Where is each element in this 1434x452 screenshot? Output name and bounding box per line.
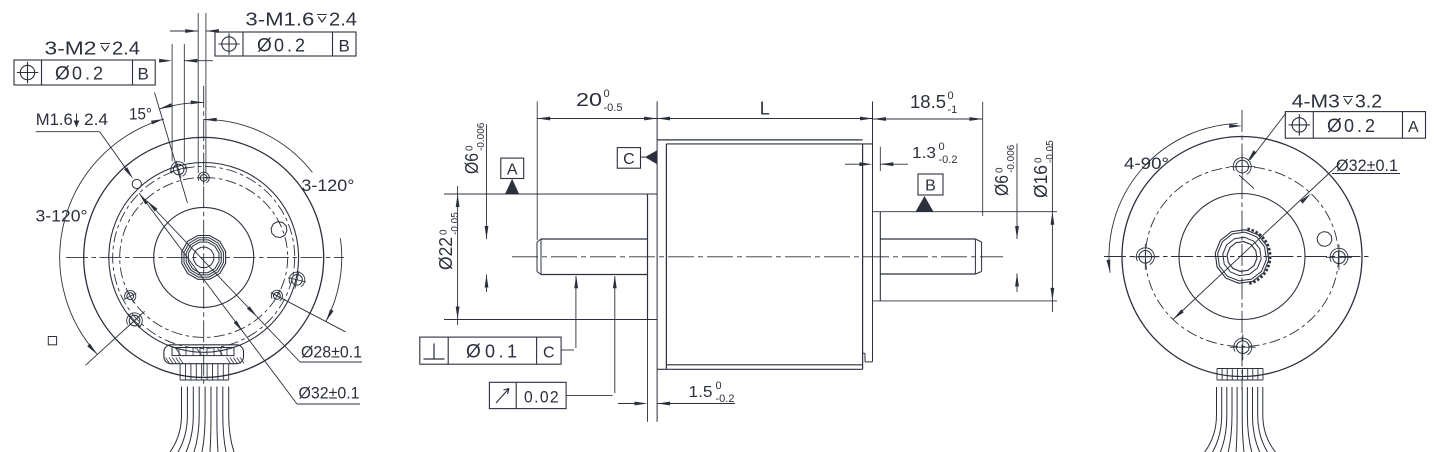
M3 screw hole 4 [1326,244,1352,270]
svg-text:-0.2: -0.2 [716,393,735,405]
left view pilot boss circle [154,207,254,307]
right shaft (D6) [880,239,981,274]
svg-text:-1: -1 [948,104,958,116]
svg-text:3.2: 3.2 [1355,91,1382,111]
svg-text:3-120°: 3-120° [301,176,354,195]
datum B [916,174,944,212]
connector housing left view [164,345,244,364]
front boss face line [647,194,649,320]
3-M1.6 hole diameter dimension line [170,29,219,33]
D32 diameter dimension line right view [1173,163,1340,320]
text 15deg [129,105,152,124]
right view vertical centerline [1241,110,1243,390]
M2 screw hole 2 [127,313,143,328]
rear cap bottom notch [863,353,873,362]
D28 diameter leader line [147,201,362,362]
svg-text:L: L [760,99,770,119]
body lip bottom line [666,364,862,366]
body front edge [665,144,667,369]
svg-text:0: 0 [439,229,450,235]
position tolerance frame A (4-M3) [1285,112,1425,139]
M2 screw hole 3 [288,271,306,289]
svg-text:Ø: Ø [1327,116,1342,137]
svg-text:1.3: 1.3 [912,145,936,162]
svg-text:Ø: Ø [257,36,272,57]
D6 right dimension line [1015,144,1019,293]
svg-text:0: 0 [1034,157,1045,163]
dimension 18.5 line [873,117,982,121]
svg-text:0: 0 [948,90,954,102]
left view shaft and bearing rings [182,236,226,280]
svg-text:4-M3: 4-M3 [1292,91,1340,111]
D32 diameter leader line [139,193,360,404]
M1.6 screw hole 3 [271,290,283,302]
svg-text:0: 0 [604,88,610,100]
D16 top edge/extension [873,211,1058,213]
perpendicularity tolerance frame [420,275,578,364]
svg-text:A: A [1408,119,1419,136]
left view horizontal centerline [66,256,344,258]
svg-text:3-120°: 3-120° [36,207,88,226]
M3 screw hole 3 [1132,244,1158,270]
body back edge [862,144,864,369]
dimension 1.5 line [618,402,735,406]
svg-text:Ø: Ø [466,342,481,363]
svg-text:0: 0 [939,141,945,153]
wire bundle right view [1205,387,1276,452]
runout tolerance frame [489,275,616,408]
svg-text:C: C [623,151,635,168]
left view flange circle [109,163,299,353]
body top line [657,139,863,141]
M3 screw hole 1 [1229,154,1255,180]
M2 hole projection lines [172,44,184,162]
svg-text:18.5: 18.5 [910,92,946,112]
svg-text:1.5: 1.5 [689,384,713,401]
svg-text:B: B [925,178,936,195]
M1.6 screw hole 1 [197,171,211,185]
datum C [617,148,657,169]
label 4-M3 depth 3.2 [1292,91,1382,111]
svg-text:2.4: 2.4 [84,110,108,129]
svg-text:Ø32±0.1: Ø32±0.1 [299,384,360,403]
svg-text:B: B [138,65,149,84]
dimension L line [657,117,873,121]
svg-text:3-M1.6: 3-M1.6 [245,10,314,30]
D22 extension/edge top line [444,193,657,195]
svg-text:0.2: 0.2 [1344,116,1378,136]
left view vertical centerline [203,86,205,387]
label M1.6 depth 2.4 with leader [36,110,133,179]
D22 extension/edge bottom line [444,319,657,321]
label 3-M2 depth 2.4 [45,39,141,59]
radial extension line lower-left M2 hole [86,311,145,365]
text 18.5 0/-1 [910,90,957,116]
text D28 [301,343,362,362]
svg-text:M1.6: M1.6 [36,110,73,129]
svg-text:Ø6: Ø6 [462,153,482,174]
svg-text:0.1: 0.1 [485,342,521,362]
svg-text:-0.5: -0.5 [604,102,623,114]
dimension 1.3 line [845,162,908,166]
left shaft (D6) [537,239,648,275]
svg-text:3-M2: 3-M2 [45,39,97,59]
svg-text:-0.006: -0.006 [1006,144,1017,173]
label 3-M1.6 depth 2.4 [245,10,357,30]
18.5 extension line [982,102,984,216]
flange face line [656,101,658,422]
3-M2 hole diameter dimension line [159,59,213,63]
left view bolt circle D32 (dashed) [113,166,295,348]
radial extension line lower-right M1.6 hole [271,293,345,332]
datum A [501,158,524,194]
svg-text:B: B [339,37,350,56]
svg-text:A: A [507,162,518,179]
right view bolt circle (dashed) [1146,167,1339,347]
4-90deg dimension arc [1107,124,1243,273]
M1.6 hole projection lines [198,13,206,173]
svg-text:-0.2: -0.2 [939,154,958,166]
reference square symbol [48,337,56,345]
svg-text:-0.05: -0.05 [1045,140,1056,163]
wire comb left view [180,364,229,380]
M2 screw hole 1 [170,161,187,178]
text 1.5 0/-0.2 [689,380,735,405]
1.3 extension line [879,147,881,171]
svg-text:-0.006: -0.006 [476,122,487,151]
pin hole right view [1317,232,1332,247]
boss face extension to bottom [647,320,649,422]
svg-text:0.2: 0.2 [274,36,308,56]
text 3-120 right [301,176,354,195]
svg-text:-0.05: -0.05 [450,212,461,235]
svg-text:20: 20 [576,90,602,110]
left view bolt circle D28 (dashed) [120,177,288,337]
svg-text:Ø16: Ø16 [1031,165,1051,198]
text D6 right [992,144,1017,196]
D16 collar face [879,212,881,301]
D6 left dimension line [485,124,489,292]
right 3-120deg dimension arc [204,118,342,322]
text L [760,99,770,119]
text D6 left [462,122,487,174]
text D16 0/-0.05 [1031,140,1056,198]
15 degree dimension arc [159,101,204,109]
4-M3 leader [1239,113,1286,189]
svg-text:Ø: Ø [55,64,70,85]
1.5 extension lines [647,320,649,422]
D16 dimension line [1051,144,1055,313]
wire comb right view [1217,369,1263,381]
position tolerance frame B (3-M2) [14,60,155,85]
svg-text:2.4: 2.4 [112,39,140,59]
svg-text:15°: 15° [129,105,152,124]
pin hole left view [271,222,287,238]
shaft tip extension line [536,101,538,240]
text 3-120 left [36,207,88,226]
svg-text:Ø28±0.1: Ø28±0.1 [301,343,362,362]
text D32 left view [299,384,360,403]
svg-text:0: 0 [716,380,722,392]
right view outer circle [1122,137,1362,377]
rear cap back line [872,102,874,362]
svg-text:0.2: 0.2 [72,64,106,84]
text D22 0/-0.05 [436,212,461,270]
svg-text:0.02: 0.02 [524,388,560,407]
svg-text:Ø22: Ø22 [436,237,456,270]
M1.6 screw hole 2 [124,290,136,302]
body lip top line [666,143,872,145]
svg-text:C: C [543,345,555,362]
svg-text:2.4: 2.4 [329,10,357,30]
text D32 right view [1332,156,1400,175]
svg-text:0: 0 [465,145,476,151]
svg-text:Ø6: Ø6 [992,175,1012,196]
right view shaft rings [1215,230,1269,284]
small dowel hole left view [132,179,141,188]
dimension 20 line [537,117,657,121]
D16 bottom edge/extension [873,300,1058,302]
M3 screw hole 2 [1230,334,1256,360]
D22 dimension line [456,186,460,325]
left 3-120deg dimension arc [60,119,164,355]
right view knurl arc [1247,229,1270,284]
text 4-90 [1124,154,1169,173]
svg-text:Ø32±0.1: Ø32±0.1 [1336,156,1398,175]
position tolerance frame B (3-M1.6) [215,32,356,57]
body bottom line [657,368,863,370]
wire bundle left view [170,387,234,452]
housing hatch marks [166,358,245,364]
15 deg slant extension line [155,93,188,204]
right view horizontal centerline [1104,256,1372,258]
text 20 0/-0.5 [576,88,622,114]
right view inner housing circle [1179,194,1305,320]
svg-text:0: 0 [995,167,1006,173]
middle view centerline [512,256,1003,258]
left view outer body circle [84,137,324,377]
text 1.3 0/-0.2 [912,141,957,166]
